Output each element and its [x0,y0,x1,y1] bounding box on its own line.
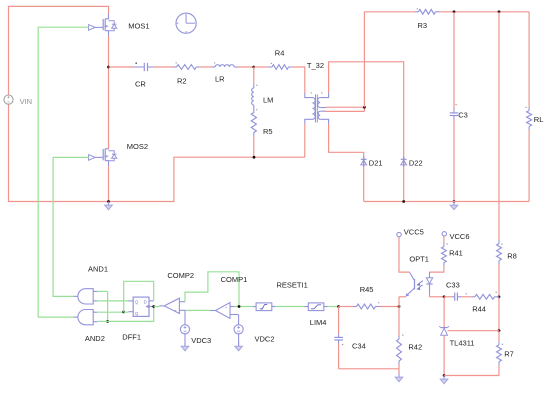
svg-text:R3: R3 [418,21,428,30]
svg-text:AND2: AND2 [85,334,105,343]
svg-text:D22: D22 [409,158,423,167]
svg-text:R4: R4 [275,49,285,58]
svg-text:MOS2: MOS2 [127,142,148,151]
svg-text:C33: C33 [446,281,460,290]
svg-text:R7: R7 [504,349,514,358]
svg-text:-: - [175,309,177,315]
svg-text:Q: Q [135,311,139,316]
svg-text:COMP2: COMP2 [167,271,194,280]
svg-text:T_32: T_32 [307,61,324,70]
svg-text:Q: Q [135,300,139,305]
svg-text:VIN: VIN [20,97,33,106]
svg-text:C34: C34 [352,342,366,351]
svg-text:LIM4: LIM4 [310,318,327,327]
svg-text:OPT1: OPT1 [409,254,429,263]
svg-text:VDC3: VDC3 [191,336,211,345]
svg-text:LM: LM [263,95,273,104]
svg-text:AND1: AND1 [88,264,108,273]
svg-text:TL4311: TL4311 [450,339,475,348]
svg-text:R2: R2 [177,77,187,86]
svg-text:CR: CR [135,79,146,88]
svg-text:R8: R8 [507,251,517,260]
svg-text:VCC6: VCC6 [450,232,470,241]
svg-text:D: D [144,300,147,305]
svg-text:R44: R44 [472,305,486,314]
svg-text:C3: C3 [458,110,468,119]
svg-text:LR: LR [215,74,225,83]
svg-text:DFF1: DFF1 [122,333,141,342]
svg-text:-: - [225,305,227,311]
svg-text:D21: D21 [369,158,383,167]
svg-text:R42: R42 [408,343,422,352]
svg-text:R5: R5 [263,127,273,136]
svg-text:MOS1: MOS1 [128,22,149,31]
svg-text:COMP1: COMP1 [221,275,248,284]
svg-text:RESETI1: RESETI1 [277,281,308,290]
svg-text:RL: RL [534,115,544,124]
svg-text:VDC2: VDC2 [255,334,275,343]
svg-text:VCC5: VCC5 [404,228,424,237]
svg-text:R41: R41 [449,249,463,258]
svg-text:R45: R45 [360,285,374,294]
